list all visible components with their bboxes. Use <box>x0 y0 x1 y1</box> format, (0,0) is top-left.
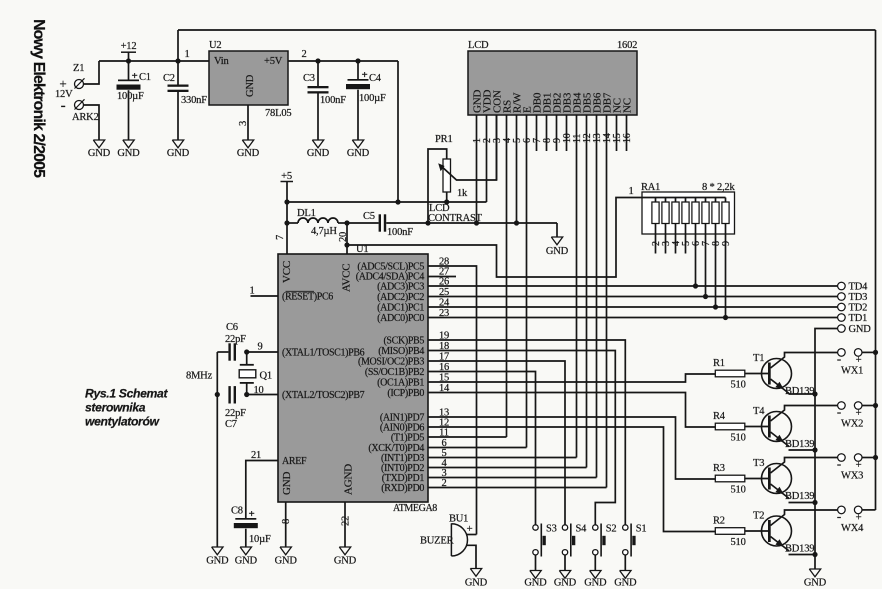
svg-text:WX2: WX2 <box>841 419 863 430</box>
svg-text:BD139: BD139 <box>785 439 814 450</box>
svg-text:GND: GND <box>546 246 569 257</box>
svg-text:GND: GND <box>245 74 256 97</box>
svg-text:C4: C4 <box>369 73 382 84</box>
svg-text:22pF: 22pF <box>225 408 246 419</box>
svg-text:GND: GND <box>275 556 298 567</box>
svg-text:BD139: BD139 <box>785 491 814 502</box>
svg-text:GND: GND <box>281 472 293 495</box>
svg-text:S4: S4 <box>576 524 588 535</box>
svg-text:GND: GND <box>804 578 827 589</box>
svg-text:GND: GND <box>524 578 547 589</box>
svg-text:GND: GND <box>334 556 357 567</box>
svg-text:510: 510 <box>731 485 746 496</box>
svg-text:GND: GND <box>614 578 637 589</box>
svg-text:+: + <box>362 69 368 81</box>
svg-text:AGND: AGND <box>343 464 355 495</box>
svg-text:T4: T4 <box>753 406 765 417</box>
svg-text:GND: GND <box>584 578 607 589</box>
svg-text:510: 510 <box>731 537 746 548</box>
svg-text:+: + <box>855 354 861 366</box>
svg-text:RA1: RA1 <box>641 182 660 193</box>
svg-text:BD139: BD139 <box>785 544 814 555</box>
svg-text:T2: T2 <box>753 511 764 522</box>
svg-text:+5: +5 <box>281 171 292 182</box>
svg-text:510: 510 <box>731 433 746 444</box>
svg-text:1: 1 <box>249 286 254 297</box>
svg-text:1602: 1602 <box>617 40 637 51</box>
svg-text:(T1)PD5: (T1)PD5 <box>391 433 424 444</box>
svg-text:(ADC2)PC2: (ADC2)PC2 <box>377 292 424 303</box>
svg-text:8 * 2,2k: 8 * 2,2k <box>702 182 735 193</box>
svg-text:(ADC1)PC1: (ADC1)PC1 <box>377 303 424 314</box>
svg-text:R1: R1 <box>713 358 725 369</box>
svg-text:C2: C2 <box>163 73 175 84</box>
svg-text:10µF: 10µF <box>249 534 271 545</box>
svg-text:(SCK)PB5: (SCK)PB5 <box>383 336 424 347</box>
svg-text:C6: C6 <box>226 322 238 333</box>
svg-text:Vin: Vin <box>214 56 229 67</box>
svg-text:(ICP)PB0: (ICP)PB0 <box>387 388 424 399</box>
svg-text:(SS/OC1B)PB2: (SS/OC1B)PB2 <box>365 367 425 378</box>
svg-text:TD4: TD4 <box>849 282 869 293</box>
svg-text:GND: GND <box>88 148 111 159</box>
svg-text:GND: GND <box>347 148 370 159</box>
svg-text:12V: 12V <box>55 89 73 100</box>
svg-text:(ADC3)PC3: (ADC3)PC3 <box>377 282 424 293</box>
svg-text:BD139: BD139 <box>785 386 814 397</box>
svg-text:T3: T3 <box>753 458 764 469</box>
svg-text:20: 20 <box>338 232 349 242</box>
svg-text:10: 10 <box>254 385 264 396</box>
svg-text:(MISO)PB4: (MISO)PB4 <box>378 346 424 357</box>
svg-text:+5V: +5V <box>264 56 283 67</box>
svg-text:C3: C3 <box>303 73 315 84</box>
svg-text:330nF: 330nF <box>181 95 207 106</box>
svg-text:VCC: VCC <box>281 261 293 283</box>
svg-text:GND: GND <box>235 556 258 567</box>
svg-text:ATMEGA8: ATMEGA8 <box>393 503 437 514</box>
svg-text:S2: S2 <box>606 524 617 535</box>
svg-text:CONTRAST: CONTRAST <box>428 213 483 224</box>
svg-text:AREF: AREF <box>282 456 307 467</box>
svg-text:21: 21 <box>251 450 261 461</box>
svg-text:Q1: Q1 <box>260 371 272 382</box>
svg-text:TD3: TD3 <box>849 292 868 303</box>
svg-text:S3: S3 <box>546 524 557 535</box>
svg-text:+: + <box>855 407 861 419</box>
svg-text:R2: R2 <box>713 516 725 527</box>
svg-text:-: - <box>61 98 66 114</box>
svg-text:R4: R4 <box>713 411 726 422</box>
svg-text:wentylatorów: wentylatorów <box>85 415 161 429</box>
svg-text:22pF: 22pF <box>225 334 246 345</box>
svg-text:WX4: WX4 <box>841 523 864 534</box>
svg-text:1: 1 <box>628 186 633 197</box>
svg-text:(RESET)PC6: (RESET)PC6 <box>282 292 333 303</box>
svg-text:100µF: 100µF <box>359 93 386 104</box>
svg-text:8MHz: 8MHz <box>186 371 213 382</box>
svg-text:510: 510 <box>731 380 746 391</box>
svg-text:2: 2 <box>301 49 306 60</box>
svg-text:78L05: 78L05 <box>265 108 291 119</box>
svg-text:(XTAL1/TOSC1)PB6: (XTAL1/TOSC1)PB6 <box>282 348 365 359</box>
svg-text:GND: GND <box>206 556 229 567</box>
svg-text:+: + <box>249 508 255 520</box>
svg-text:-: - <box>837 456 841 471</box>
svg-text:+: + <box>855 511 861 523</box>
svg-text:(OC1A)PB1: (OC1A)PB1 <box>377 378 424 389</box>
svg-text:GND: GND <box>167 148 190 159</box>
svg-text:C7: C7 <box>225 419 237 430</box>
svg-text:(XTAL2/TOSC2)PB7: (XTAL2/TOSC2)PB7 <box>282 390 365 401</box>
svg-text:4,7µH: 4,7µH <box>311 226 337 237</box>
svg-text:+: + <box>132 70 138 82</box>
svg-text:GND: GND <box>117 148 140 159</box>
svg-text:Z1: Z1 <box>73 63 84 74</box>
svg-text:+: + <box>467 523 473 535</box>
svg-text:NC: NC <box>621 98 633 113</box>
svg-text:1k: 1k <box>457 188 468 199</box>
svg-text:T1: T1 <box>753 353 764 364</box>
svg-text:GND: GND <box>554 578 577 589</box>
svg-text:16: 16 <box>622 133 633 143</box>
svg-text:9: 9 <box>258 342 263 353</box>
svg-text:WX1: WX1 <box>841 365 863 376</box>
svg-text:1: 1 <box>184 49 189 60</box>
svg-text:7: 7 <box>275 235 286 240</box>
svg-text:S1: S1 <box>636 524 647 535</box>
svg-text:GND: GND <box>237 148 260 159</box>
svg-text:TD1: TD1 <box>849 313 868 324</box>
svg-text:WX3: WX3 <box>841 471 863 482</box>
svg-text:TD2: TD2 <box>849 303 868 314</box>
svg-text:8: 8 <box>281 519 292 524</box>
svg-text:+12: +12 <box>121 41 137 52</box>
svg-text:C1: C1 <box>139 72 151 83</box>
svg-text:+: + <box>855 459 861 471</box>
svg-text:Rys.1 Schemat: Rys.1 Schemat <box>85 387 168 401</box>
svg-text:sterownika: sterownika <box>85 401 146 415</box>
svg-text:GND: GND <box>849 324 872 335</box>
svg-text:-: - <box>837 351 841 366</box>
svg-text:-: - <box>837 404 841 419</box>
svg-text:100nF: 100nF <box>387 227 413 238</box>
svg-text:GND: GND <box>307 148 330 159</box>
svg-text:3: 3 <box>238 121 249 126</box>
svg-text:(ADC0)PC0: (ADC0)PC0 <box>377 313 424 324</box>
svg-text:C5: C5 <box>363 211 375 222</box>
svg-text:BUZER: BUZER <box>420 536 454 547</box>
svg-text:C8: C8 <box>231 506 243 517</box>
svg-text:100nF: 100nF <box>320 95 346 106</box>
svg-text:(MOSI/OC2)PB3: (MOSI/OC2)PB3 <box>358 357 424 368</box>
svg-text:R3: R3 <box>713 463 725 474</box>
svg-text:22: 22 <box>341 516 352 526</box>
svg-text:PR1: PR1 <box>435 134 453 145</box>
svg-text:100µF: 100µF <box>117 91 144 102</box>
svg-text:-: - <box>837 508 841 523</box>
svg-text:LCD: LCD <box>468 40 489 51</box>
svg-text:U2: U2 <box>209 40 221 51</box>
svg-text:GND: GND <box>465 578 488 589</box>
svg-text:(RXD)PD0: (RXD)PD0 <box>381 483 424 494</box>
svg-text:Nowy Elektronik 2/2005: Nowy Elektronik 2/2005 <box>30 19 47 178</box>
svg-text:AVCC: AVCC <box>341 264 353 292</box>
svg-text:BU1: BU1 <box>449 514 468 525</box>
svg-text:ARK2: ARK2 <box>72 112 99 123</box>
